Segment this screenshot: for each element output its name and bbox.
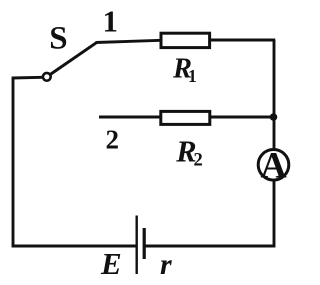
- node junction dot: [270, 113, 278, 121]
- wire bottom right segment: [144, 245, 275, 248]
- ammeter A: [258, 150, 289, 181]
- svg-text:2: 2: [106, 124, 120, 154]
- battery E long plate: [135, 216, 137, 275]
- wire bottom left segment: [12, 245, 137, 248]
- resistor R2: [161, 111, 210, 124]
- switch S lever: [48, 43, 96, 76]
- svg-text:E: E: [100, 246, 122, 281]
- svg-text:1: 1: [103, 4, 119, 39]
- wire switch stub: [12, 76, 43, 80]
- svg-text:A: A: [260, 144, 287, 185]
- svg-text:2: 2: [194, 151, 203, 171]
- switch S pivot: [43, 73, 51, 81]
- wire top left segment from switch to R1: [96, 40, 162, 42]
- svg-text:1: 1: [188, 66, 197, 86]
- svg-text:S: S: [49, 20, 67, 56]
- wire left vertical: [12, 78, 15, 248]
- wire branch2 right segment: [210, 116, 274, 119]
- svg-text:r: r: [160, 248, 172, 281]
- resistor R1: [161, 33, 210, 47]
- wire branch2 left segment: [99, 116, 161, 119]
- battery E short plate: [143, 228, 146, 259]
- wire right vertical: [273, 40, 276, 247]
- wire top right segment: [210, 39, 275, 42]
